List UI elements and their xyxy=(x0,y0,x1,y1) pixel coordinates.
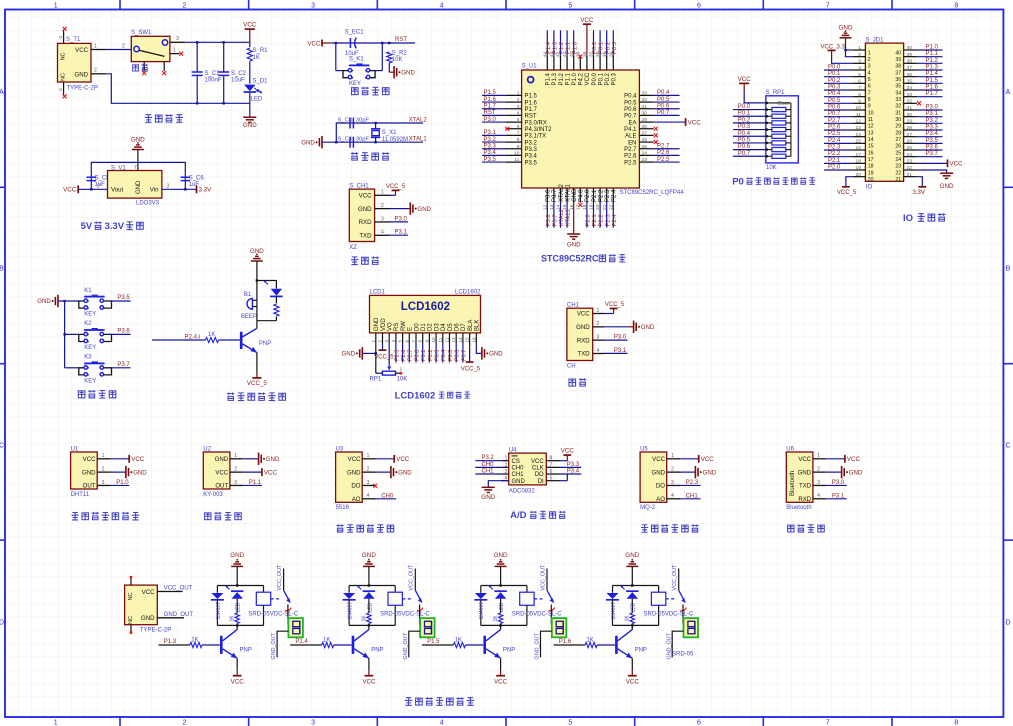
svg-text:1: 1 xyxy=(868,50,871,56)
resistor S_R2 10K xyxy=(387,52,392,63)
wire JD1 net P2.3 xyxy=(824,149,852,151)
svg-text:DO: DO xyxy=(656,483,665,490)
pin 17 of U1 xyxy=(579,188,581,203)
svg-text:E: E xyxy=(408,327,414,331)
svg-text:GND: GND xyxy=(940,183,954,190)
wire LCD BLK to GND xyxy=(476,344,482,354)
pin 2 of LCD1 xyxy=(382,333,384,344)
svg-text:VCC_5: VCC_5 xyxy=(461,366,481,372)
svg-text:3: 3 xyxy=(505,469,508,475)
pin 24 of JD1 xyxy=(904,156,917,158)
svg-text:32: 32 xyxy=(642,97,648,103)
svg-text:0: 0 xyxy=(58,36,64,39)
wire CH1 TXD net P3.1 xyxy=(390,234,408,236)
svg-text:9: 9 xyxy=(424,340,429,343)
svg-text:P3.0: P3.0 xyxy=(832,480,845,486)
junction reset left xyxy=(335,42,337,44)
wire JD1 net P0.6 xyxy=(824,109,852,111)
svg-text:LCD1602: LCD1602 xyxy=(401,301,450,313)
wire relay 4 bottom rail xyxy=(613,624,659,626)
svg-text:P3.4: P3.4 xyxy=(525,154,538,160)
svg-text:24: 24 xyxy=(895,157,901,163)
potentiometer RP1 10K xyxy=(382,371,395,375)
relay coil K2 SRD-05VDC-SL-C xyxy=(394,586,396,593)
pin 11 of JD1 xyxy=(852,116,865,118)
svg-text:5: 5 xyxy=(550,476,553,482)
svg-text:2: 2 xyxy=(858,52,861,58)
svg-text:XTAL2: XTAL2 xyxy=(559,209,565,227)
svg-text:S_JD1: S_JD1 xyxy=(865,37,884,43)
wire net P0.4 to RP1 xyxy=(733,135,766,137)
svg-text:8: 8 xyxy=(550,456,553,462)
connector CH1 serial xyxy=(567,308,593,360)
svg-text:P3.0: P3.0 xyxy=(926,105,939,111)
svg-text:D: D xyxy=(0,619,4,626)
pin 29 of U1 xyxy=(639,121,653,123)
regulator S_V1 LDO3V3 xyxy=(108,171,162,199)
svg-text:14: 14 xyxy=(458,337,463,343)
svg-text:P2.6: P2.6 xyxy=(828,125,841,131)
svg-text:XTAL2: XTAL2 xyxy=(559,183,565,202)
svg-text:28: 28 xyxy=(895,130,901,136)
svg-text:P0.5: P0.5 xyxy=(448,350,454,361)
svg-text:KEY: KEY xyxy=(349,81,361,87)
svg-text:S_RP1: S_RP1 xyxy=(766,90,786,96)
title relay control circuit xyxy=(405,698,412,706)
svg-text:13: 13 xyxy=(451,337,456,343)
svg-text:P2.3: P2.3 xyxy=(686,480,699,486)
svg-text:SRD-05VDC-SL-C: SRD-05VDC-SL-C xyxy=(644,611,694,617)
svg-text:P3.4: P3.4 xyxy=(567,468,580,474)
svg-text:P3.5: P3.5 xyxy=(117,295,130,301)
svg-text:A: A xyxy=(0,89,4,96)
svg-text:U4: U4 xyxy=(509,447,517,453)
wire relay 2 top rail xyxy=(349,585,395,587)
svg-text:VCC: VCC xyxy=(577,311,590,318)
pin 9 of LCD1 xyxy=(428,333,430,344)
svg-text:34: 34 xyxy=(907,85,913,91)
pin 13 of JD1 xyxy=(852,129,865,131)
wire net P0.0 to RP1 xyxy=(733,109,766,111)
svg-text:2: 2 xyxy=(122,43,125,49)
svg-text:P1.0: P1.0 xyxy=(926,45,939,51)
wire net P0.7 to RP1 xyxy=(733,155,766,157)
wire CH1 RXD net P3.0 xyxy=(390,221,408,223)
svg-text:D3: D3 xyxy=(434,323,440,331)
svg-text:P4.1: P4.1 xyxy=(624,127,637,133)
crystal S_X1 11.0592M xyxy=(375,123,377,129)
wire JD1 net P0.0 xyxy=(824,69,852,71)
svg-text:VCC_OUT: VCC_OUT xyxy=(277,564,283,590)
pin 39 of JD1 xyxy=(904,56,917,58)
ground GND right of JD1 xyxy=(940,172,953,174)
svg-text:16: 16 xyxy=(856,145,862,151)
svg-text:3: 3 xyxy=(102,480,105,486)
svg-text:LCD1602: LCD1602 xyxy=(455,290,481,296)
resistor RP1 element 7 xyxy=(766,149,772,151)
wire U1 net P0.6 xyxy=(654,108,680,110)
svg-text:VCC: VCC xyxy=(131,456,145,463)
svg-text:9: 9 xyxy=(868,104,871,110)
svg-text:3: 3 xyxy=(311,2,315,9)
svg-text:P3.0: P3.0 xyxy=(484,117,497,123)
pin 31 of JD1 xyxy=(904,109,917,111)
svg-text:GND: GND xyxy=(418,206,432,213)
svg-text:GND: GND xyxy=(512,479,526,485)
svg-text:35: 35 xyxy=(907,78,913,84)
svg-text:2: 2 xyxy=(182,720,186,726)
pin 24 of U1 xyxy=(639,154,653,156)
pin 11 of LCD1 xyxy=(442,333,444,344)
svg-text:P1.2: P1.2 xyxy=(926,58,939,64)
wire emitter relay 3 to VCC xyxy=(500,658,502,670)
wire alarm diode branch xyxy=(257,281,277,289)
pin 15 of LCD1 xyxy=(469,333,471,344)
pin 3 of U5 xyxy=(667,484,680,486)
pin 4 of U3 xyxy=(362,498,375,500)
wire base relay 3 net P1.5 xyxy=(422,644,454,646)
svg-text:38: 38 xyxy=(895,64,901,70)
resistor 1K relay base 1 xyxy=(190,642,202,647)
svg-text:26: 26 xyxy=(642,137,648,143)
svg-text:2: 2 xyxy=(102,467,105,473)
svg-text:23: 23 xyxy=(895,164,901,170)
svg-text:P0.7: P0.7 xyxy=(738,151,751,157)
svg-text:20: 20 xyxy=(856,172,862,178)
svg-text:P0.1: P0.1 xyxy=(828,71,841,77)
svg-text:5: 5 xyxy=(568,2,572,9)
svg-text:S_R2: S_R2 xyxy=(392,50,408,56)
pin 34 of U1 xyxy=(612,55,614,70)
wire JD1 net P2.4 xyxy=(824,142,852,144)
svg-text:26: 26 xyxy=(907,138,913,144)
pin GND of N1 net GND_OUT xyxy=(157,617,184,619)
svg-text:DI: DI xyxy=(538,479,544,485)
pin 6 of U1 xyxy=(506,128,522,130)
pin 2 of U1 xyxy=(97,471,110,473)
wire LCD net P0.0 xyxy=(415,344,417,363)
wire CH1 RXD net P3.0 xyxy=(604,339,628,341)
wire U1 net P3.7 bottom xyxy=(553,203,555,228)
svg-text:VCC: VCC xyxy=(83,456,96,463)
resistor 1K relay base 3 xyxy=(453,642,465,647)
svg-text:CH0: CH0 xyxy=(512,466,525,472)
svg-text:P0.0: P0.0 xyxy=(828,65,841,71)
svg-text:VCC_OUT: VCC_OUT xyxy=(409,564,415,590)
svg-text:P2.1: P2.1 xyxy=(592,214,598,226)
wire R1 to D1 xyxy=(249,61,251,83)
svg-text:1: 1 xyxy=(94,43,97,49)
svg-text:P2.4: P2.4 xyxy=(185,334,198,340)
svg-text:P1.4: P1.4 xyxy=(926,71,939,77)
transistor PNP relay 1 xyxy=(220,636,223,654)
svg-text:MQ-2: MQ-2 xyxy=(640,505,656,511)
svg-text:XTAL1: XTAL1 xyxy=(565,183,571,202)
svg-text:6: 6 xyxy=(517,124,520,130)
svg-text:P1.1: P1.1 xyxy=(565,72,571,85)
pin 8 of U4 xyxy=(546,460,560,462)
svg-text:VCC: VCC xyxy=(359,193,372,200)
svg-text:VCC: VCC xyxy=(307,40,321,47)
svg-text:VCC: VCC xyxy=(798,456,811,463)
pin 28 of U1 xyxy=(639,128,653,130)
svg-text:P3.4: P3.4 xyxy=(926,131,939,137)
svg-text:1: 1 xyxy=(400,366,403,372)
wire net P0.2 to RP1 xyxy=(733,122,766,124)
resistor RP1 element 6 xyxy=(766,142,772,144)
wire JD1 net P2.7 xyxy=(824,122,852,124)
svg-text:P3.1: P3.1 xyxy=(395,230,408,236)
svg-text:CH0: CH0 xyxy=(381,493,394,499)
svg-text:GND: GND xyxy=(641,324,655,331)
ground GND power circuit xyxy=(243,116,256,118)
svg-text:22: 22 xyxy=(907,165,913,171)
svg-text:29: 29 xyxy=(895,124,901,130)
wire U1 net XTAL1 bottom xyxy=(566,203,568,228)
pin 8 of LCD1 xyxy=(422,333,424,344)
svg-text:SRD-05VDC-SL-C: SRD-05VDC-SL-C xyxy=(512,611,562,617)
wire U4 CS net P3.2 xyxy=(475,460,501,462)
svg-text:LCD1602: LCD1602 xyxy=(395,390,436,401)
wire VCC to RST xyxy=(331,42,415,44)
svg-text:GND: GND xyxy=(849,469,863,476)
svg-text:6: 6 xyxy=(697,2,701,9)
svg-text:11: 11 xyxy=(856,112,861,118)
svg-text:5: 5 xyxy=(868,77,871,83)
svg-text:P1.5: P1.5 xyxy=(525,94,538,100)
pin 19 of U1 xyxy=(593,188,595,203)
svg-text:4: 4 xyxy=(381,230,384,236)
wire U1 net P0.2 top xyxy=(606,30,608,55)
svg-text:40: 40 xyxy=(895,50,901,56)
svg-text:RW: RW xyxy=(401,321,407,331)
svg-text:7: 7 xyxy=(411,340,416,343)
svg-text:2: 2 xyxy=(94,68,97,74)
svg-text:29: 29 xyxy=(907,118,913,124)
wire JD1 net P0.7 xyxy=(824,116,852,118)
svg-text:P1.1: P1.1 xyxy=(926,51,939,57)
relay GND_OUT lead 3 xyxy=(541,631,552,657)
svg-text:S_D1: S_D1 xyxy=(253,78,269,84)
wire JD1 net P3.6 xyxy=(917,149,943,151)
svg-text:24: 24 xyxy=(907,152,913,158)
svg-text:P3.0/RX: P3.0/RX xyxy=(525,120,547,126)
svg-text:7: 7 xyxy=(517,131,520,137)
svg-text:3: 3 xyxy=(384,340,389,343)
pin 21 of JD1 xyxy=(904,176,917,178)
wire JD1 net P1.6 xyxy=(917,89,943,91)
wire U1 net P1.4 top xyxy=(546,30,548,55)
svg-text:P2.0: P2.0 xyxy=(828,165,841,171)
pin stub bottom of N1 xyxy=(130,625,132,632)
svg-text:7: 7 xyxy=(858,85,861,91)
pin 18 of U1 xyxy=(586,188,588,203)
svg-text:VCC: VCC xyxy=(688,119,702,126)
svg-text:P2.3: P2.3 xyxy=(605,189,611,202)
title download port xyxy=(351,257,358,265)
relay coil K1 SRD-05VDC-SL-C xyxy=(263,586,265,593)
svg-text:P0.4: P0.4 xyxy=(441,350,447,361)
wire U1 net P0.4 xyxy=(654,94,680,96)
pin 16 of LCD1 xyxy=(475,333,477,344)
svg-text:OUT: OUT xyxy=(215,483,228,490)
svg-text:GND: GND xyxy=(481,494,495,501)
svg-text:7: 7 xyxy=(134,165,137,171)
svg-text:PNP: PNP xyxy=(240,647,252,653)
svg-text:1K: 1K xyxy=(625,615,631,622)
svg-text:P3.7: P3.7 xyxy=(926,151,939,157)
svg-text:AO: AO xyxy=(656,496,665,503)
pin 6 of JD1 xyxy=(852,82,865,84)
svg-text:4: 4 xyxy=(440,720,444,726)
wire R2 to GND xyxy=(388,63,390,72)
svg-text:13: 13 xyxy=(856,125,862,131)
svg-text:24: 24 xyxy=(642,151,648,157)
svg-text:VCC: VCC xyxy=(701,456,715,463)
power port VCC at EA xyxy=(685,118,687,126)
svg-text:VCC: VCC xyxy=(531,459,544,465)
pin 31 of U1 xyxy=(639,108,653,110)
svg-text:VCC_5: VCC_5 xyxy=(837,190,857,196)
transistor PNP relay 3 xyxy=(483,636,486,654)
relay coil K3 SRD-05VDC-SL-C xyxy=(526,586,528,593)
svg-text:4: 4 xyxy=(817,493,820,499)
svg-text:P1.5: P1.5 xyxy=(427,639,440,645)
svg-text:32: 32 xyxy=(895,104,901,110)
svg-text:P0.1: P0.1 xyxy=(421,350,427,361)
svg-text:8: 8 xyxy=(418,340,423,343)
svg-text:D5: D5 xyxy=(448,323,454,331)
wire U1 EA to VCC xyxy=(654,121,686,123)
pin 14 of LCD1 xyxy=(462,333,464,344)
svg-text:S_C1: S_C1 xyxy=(205,71,221,77)
ground GND right of LCD xyxy=(481,347,483,359)
svg-text:27: 27 xyxy=(642,131,648,137)
svg-text:P3.7: P3.7 xyxy=(117,362,130,368)
svg-text:3: 3 xyxy=(367,480,370,486)
pin 1 of LCD1 xyxy=(375,333,377,344)
svg-text:3: 3 xyxy=(858,58,861,64)
ground GND left of LCD xyxy=(361,347,363,359)
pin 2 of U1 xyxy=(506,101,522,103)
svg-text:GND: GND xyxy=(489,351,503,358)
junction C1 top xyxy=(196,41,198,43)
wire U1 net P1.5 xyxy=(482,94,506,96)
diode 1N4007 relay 4 xyxy=(612,586,614,593)
relay switch dashed link 1 xyxy=(271,598,281,600)
svg-text:RXD: RXD xyxy=(798,496,811,503)
power port VCC_5 LCD BLA xyxy=(469,344,471,362)
relay switch dashed link 2 xyxy=(402,598,412,600)
wire U1 net P0.0 top xyxy=(593,30,595,55)
svg-text:P0.7: P0.7 xyxy=(461,350,467,361)
wire JD1 net P2.0 xyxy=(824,169,852,171)
svg-text:P2.7: P2.7 xyxy=(657,143,670,149)
svg-text:P1.7: P1.7 xyxy=(525,107,538,113)
svg-text:ADC0832: ADC0832 xyxy=(509,488,536,494)
no-connect pin 26 of U1 xyxy=(654,140,658,144)
wire JD1 net P2.6 xyxy=(824,129,852,131)
svg-text:RST: RST xyxy=(395,37,407,43)
svg-text:D4: D4 xyxy=(441,323,447,331)
svg-text:GND: GND xyxy=(494,552,508,559)
pin 25 of JD1 xyxy=(904,149,917,151)
svg-text:10: 10 xyxy=(431,337,436,343)
svg-text:S_X1: S_X1 xyxy=(382,130,397,136)
svg-text:P2.2: P2.2 xyxy=(599,214,605,226)
pin 3 of S_CH1 xyxy=(375,221,390,223)
svg-text:27: 27 xyxy=(895,137,901,143)
wire T1 VCC to SW1 xyxy=(106,49,132,51)
diode 1N4007 relay 2 xyxy=(348,586,350,593)
svg-text:6: 6 xyxy=(550,469,553,475)
wire relay 2 bottom rail xyxy=(349,624,395,626)
pin 15 of JD1 xyxy=(852,142,865,144)
svg-text:1: 1 xyxy=(505,456,508,462)
title module U2 xyxy=(205,513,211,520)
svg-text:11: 11 xyxy=(438,337,443,342)
pin 7 of U4 xyxy=(546,466,560,468)
pin 12 of U1 xyxy=(546,188,548,203)
svg-text:1: 1 xyxy=(371,340,376,343)
svg-text:30pF: 30pF xyxy=(356,117,370,123)
wire U1 net P2.5 xyxy=(654,161,680,163)
LCD LCD1 module xyxy=(370,295,481,333)
wire U1 pin3 net P1.0 xyxy=(111,484,130,486)
svg-text:P2.7: P2.7 xyxy=(408,350,414,361)
svg-text:P0.2: P0.2 xyxy=(605,72,611,85)
svg-text:KEY: KEY xyxy=(84,378,96,384)
svg-text:K1: K1 xyxy=(84,288,92,294)
svg-text:P1.4: P1.4 xyxy=(546,72,552,85)
pin 23 of JD1 xyxy=(904,162,917,164)
svg-text:GND_OUT: GND_OUT xyxy=(535,632,541,659)
svg-text:39: 39 xyxy=(895,57,901,63)
relay VCC_OUT lead 2 xyxy=(414,569,416,591)
svg-text:1: 1 xyxy=(102,453,105,459)
svg-text:S_EC1: S_EC1 xyxy=(345,30,365,36)
wire U4 CH1 net CH1 xyxy=(475,473,501,475)
pin 7 of LCD1 xyxy=(415,333,417,344)
pin 41 of U1 xyxy=(566,55,568,70)
svg-text:10K: 10K xyxy=(766,165,777,171)
svg-text:P3.0: P3.0 xyxy=(614,335,627,341)
svg-text:P2.1: P2.1 xyxy=(828,158,841,164)
pin 3 of U2 xyxy=(230,484,243,486)
pin 14 of JD1 xyxy=(852,136,865,138)
pin 2 of U5 xyxy=(667,471,680,473)
svg-text:5516: 5516 xyxy=(336,505,350,511)
svg-text:P2.7: P2.7 xyxy=(624,147,637,153)
svg-text:1K: 1K xyxy=(208,332,215,338)
svg-text:40: 40 xyxy=(907,45,913,51)
capacitor S_C2 10uF xyxy=(223,42,225,72)
no-connect pin 39 of U1 xyxy=(578,55,582,59)
svg-text:B1: B1 xyxy=(244,292,252,298)
svg-text:P4.0: P4.0 xyxy=(579,189,585,202)
svg-text:16: 16 xyxy=(868,150,874,156)
svg-text:P3.3: P3.3 xyxy=(926,125,939,131)
svg-text:RS: RS xyxy=(394,323,400,331)
svg-text:28: 28 xyxy=(642,124,648,130)
relay switch blade 1 xyxy=(284,590,290,601)
svg-text:P0.7: P0.7 xyxy=(624,114,637,120)
svg-text:P3.2: P3.2 xyxy=(926,118,939,124)
svg-text:30: 30 xyxy=(895,117,901,123)
svg-text:TYPE-C-2P: TYPE-C-2P xyxy=(67,85,98,91)
pin 1 of CH1 xyxy=(593,313,604,315)
wire JD1 pin 23 to VCC xyxy=(917,162,948,164)
